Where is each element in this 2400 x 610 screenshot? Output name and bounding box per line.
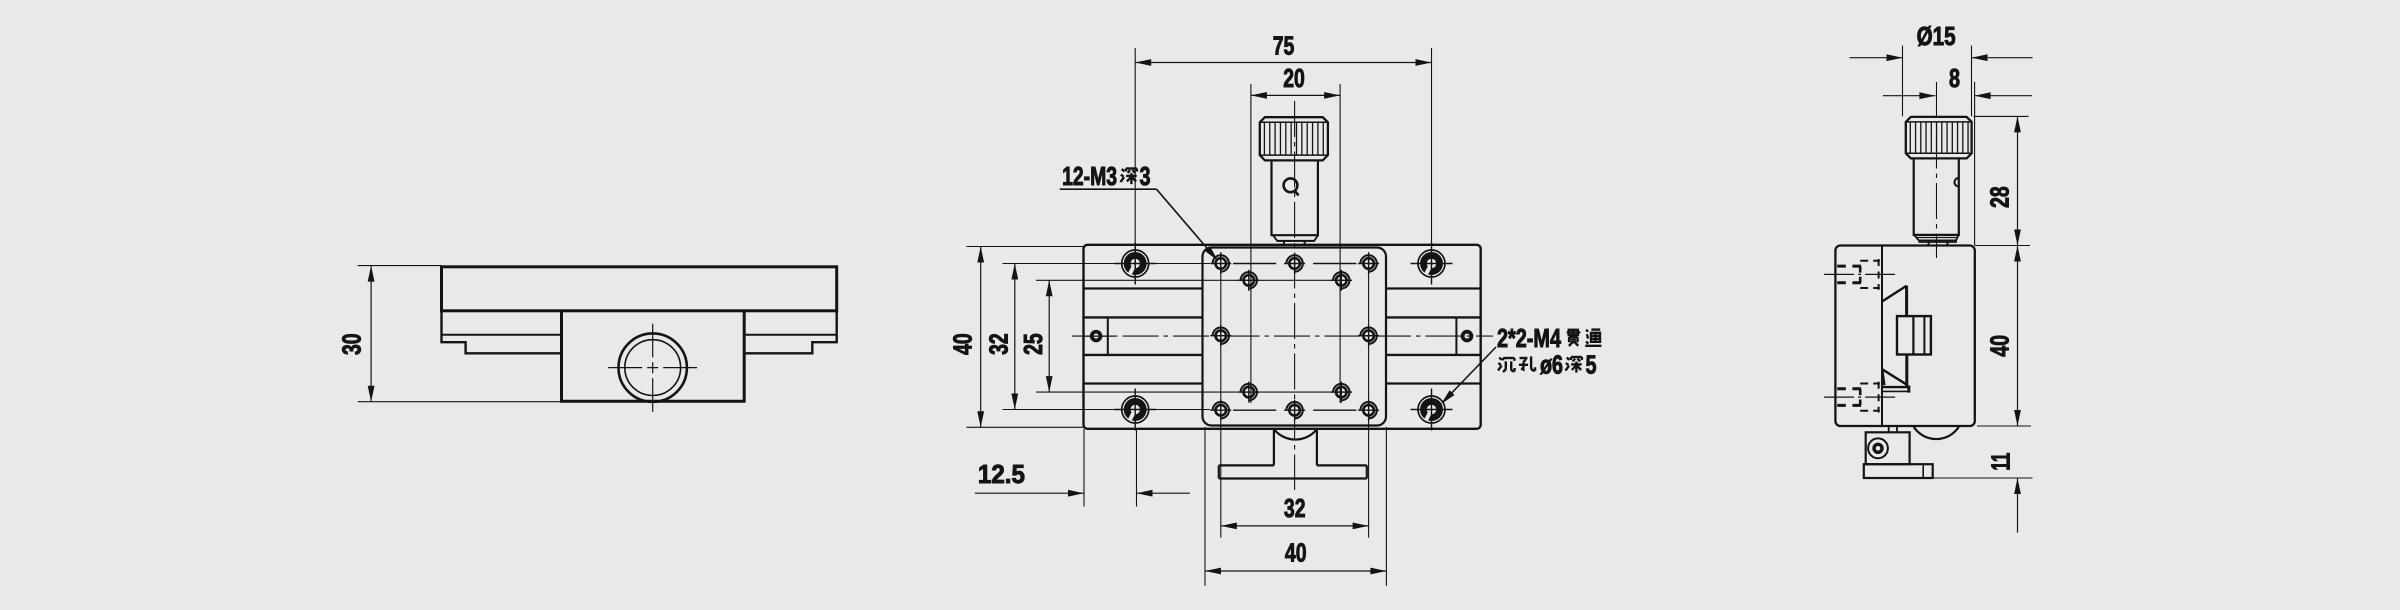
svg-text:32: 32 <box>1284 493 1306 523</box>
svg-text:75: 75 <box>1273 30 1295 60</box>
svg-text:20: 20 <box>1283 63 1305 93</box>
svg-text:2*2-M4: 2*2-M4 <box>1497 323 1561 353</box>
svg-text:28: 28 <box>1985 186 2015 208</box>
svg-text:11: 11 <box>1986 453 2016 471</box>
svg-text:5: 5 <box>1586 349 1597 379</box>
svg-text:30: 30 <box>336 333 366 355</box>
svg-text:40: 40 <box>1985 335 2015 357</box>
svg-text:ø6: ø6 <box>1540 349 1563 379</box>
svg-text:8: 8 <box>1949 63 1960 93</box>
svg-text:40: 40 <box>948 333 978 355</box>
svg-text:40: 40 <box>1285 538 1307 568</box>
svg-text:Ø15: Ø15 <box>1917 21 1956 51</box>
svg-text:12-M3: 12-M3 <box>1062 161 1117 191</box>
svg-text:3: 3 <box>1140 161 1151 191</box>
svg-text:32: 32 <box>984 333 1014 355</box>
svg-text:25: 25 <box>1018 333 1048 355</box>
svg-text:12.5: 12.5 <box>978 459 1025 489</box>
